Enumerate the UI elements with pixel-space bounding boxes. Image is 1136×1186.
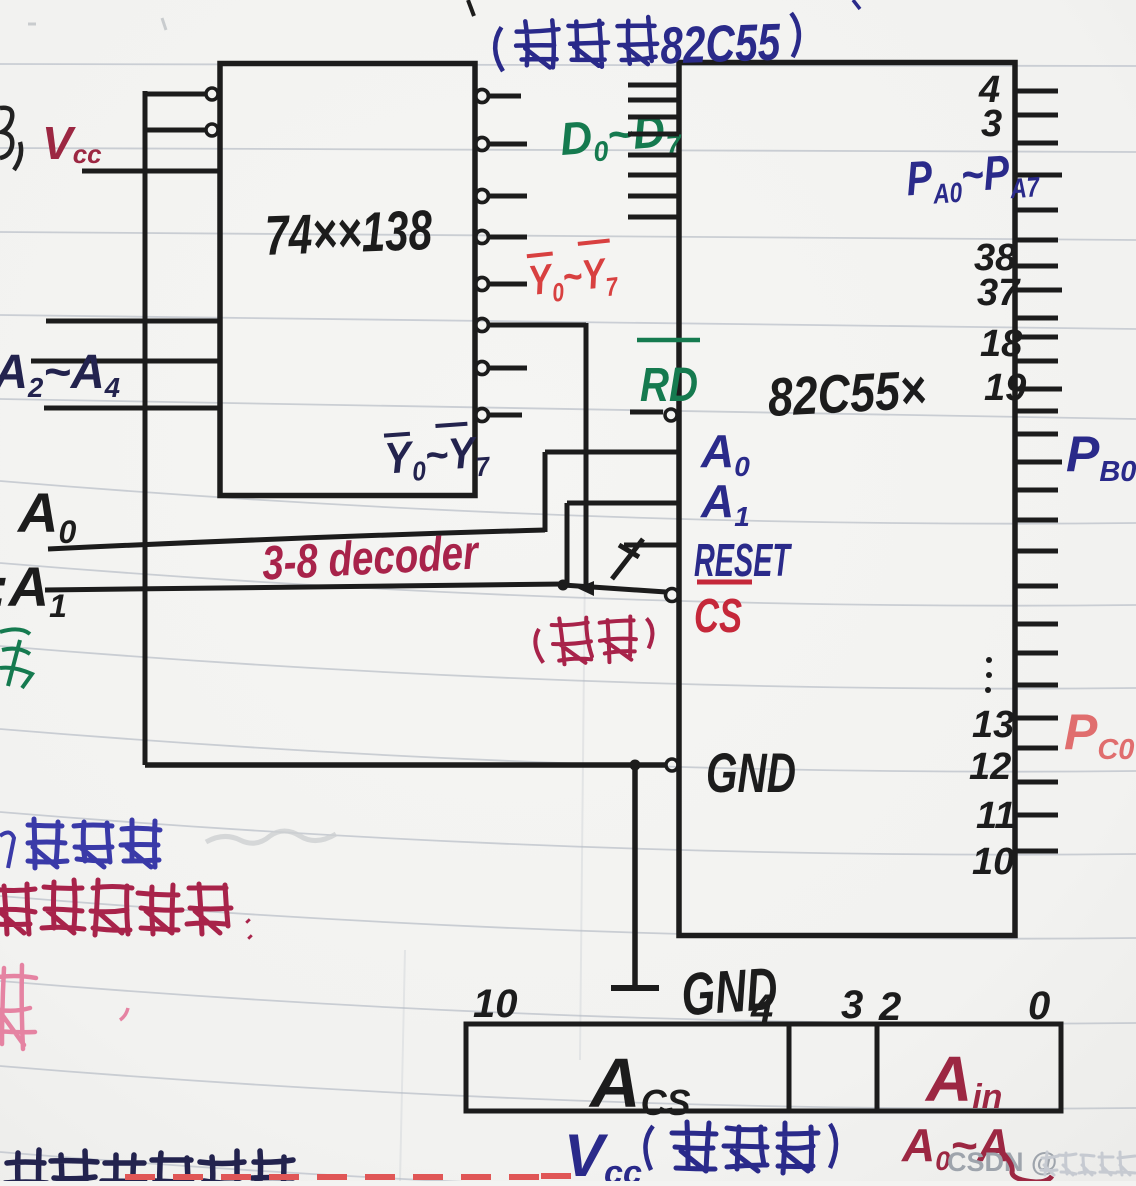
faint bleed-through ghost marks [206, 831, 336, 843]
red dashes bottom [125, 1176, 571, 1177]
note (blue) cut: jin xing wei [0, 832, 14, 868]
svg-text:4: 4 [750, 987, 773, 1031]
register box [466, 1024, 1061, 1111]
junction dot GND [630, 760, 641, 771]
pin label CS (red, overbar) [697, 580, 752, 585]
svg-text:18: 18 [980, 323, 1023, 365]
wire: Y output to CS (vertical drop) [584, 323, 589, 588]
svg-text:RD: RD [640, 359, 698, 412]
ground bar [611, 985, 659, 991]
pin CS circle [666, 589, 679, 602]
junction dot A1 [558, 580, 569, 591]
register divider 1 [787, 1024, 792, 1111]
svg-text:2: 2 [878, 985, 901, 1029]
label 3-8 decoder (crimson) [261, 526, 481, 590]
annotation (enable) crimson [534, 612, 655, 667]
U2 right port pins [1016, 89, 1058, 94]
svg-text:10: 10 [473, 982, 518, 1026]
wire: enable pin 2 of U1 [145, 128, 205, 133]
label D0~D7 (green) [558, 103, 684, 170]
wire: A0 riser [543, 452, 548, 532]
svg-text:GND: GND [706, 741, 796, 804]
vertical dots [986, 657, 992, 663]
green scribble left [0, 629, 32, 688]
U1 output pins Y0..Y7 [476, 90, 489, 103]
wire: to CS pin with arrowhead [563, 585, 666, 592]
register divider 2 [875, 1024, 880, 1111]
svg-text:CS: CS [694, 590, 742, 643]
svg-text:3: 3 [841, 983, 863, 1027]
bottom note (dark navy) clipped [5, 1150, 47, 1186]
wire: left vertical bus [143, 91, 148, 765]
X mark on RESET [612, 539, 643, 579]
wire: Y output to CS (horizontal) [488, 323, 586, 328]
black fragment at left edge [0, 108, 21, 170]
decoder U1 74XX138 box [220, 64, 475, 496]
label Y0~Y7 (navy, overbars, below box) [383, 422, 493, 488]
svg-text:82C55: 82C55 [659, 13, 782, 75]
svg-text:12: 12 [969, 746, 1011, 788]
svg-text:3: 3 [981, 103, 1002, 145]
wire: Vcc row into U1 [82, 169, 219, 174]
wire: RESET stub [624, 543, 679, 548]
wire: address input row A2 [46, 319, 219, 324]
note (crimson) about chip count [0, 884, 35, 934]
svg-text:11: 11 [976, 795, 1015, 837]
svg-text:0: 0 [1028, 984, 1050, 1028]
wire: address input row A4 [44, 406, 220, 411]
wire: A0 row [48, 530, 545, 549]
svg-text:13: 13 [972, 704, 1014, 746]
wire: GND drop [632, 765, 638, 986]
wire: A1 into U2 [567, 501, 679, 506]
stray mark top [468, 0, 474, 16]
wire: A1 riser [565, 503, 570, 584]
U2 data pins D0..D7 ticks [628, 83, 679, 88]
svg-text:37: 37 [977, 272, 1021, 314]
svg-text:A2~A4: A2~A4 [0, 346, 120, 403]
wire: enable pin 1 of U1 [145, 92, 205, 97]
label PA0~PA7 (navy) [905, 144, 1042, 211]
wire: A0 into U2 [545, 450, 679, 455]
svg-text:19: 19 [984, 367, 1026, 409]
pin GND circle [666, 759, 678, 771]
pin RD of U2 [630, 410, 663, 415]
wire: A1 row [45, 584, 563, 590]
chip U2 82C55X box [679, 63, 1015, 936]
wire: GND row [145, 762, 665, 768]
svg-text:74××138: 74××138 [264, 198, 434, 267]
wire: address input row A3 [31, 359, 219, 364]
svg-text:82C55×: 82C55× [766, 360, 927, 428]
annotation (connect other 82C55) navy [494, 12, 800, 82]
label GND (bottom) [679, 955, 779, 1029]
pink character fragment [0, 965, 36, 1049]
annotation (chip-select number) navy [645, 1126, 653, 1170]
svg-text:10: 10 [972, 841, 1014, 883]
svg-text:RESET: RESET [694, 534, 792, 586]
label Y0~Y7 (red, overbars) [525, 240, 620, 310]
